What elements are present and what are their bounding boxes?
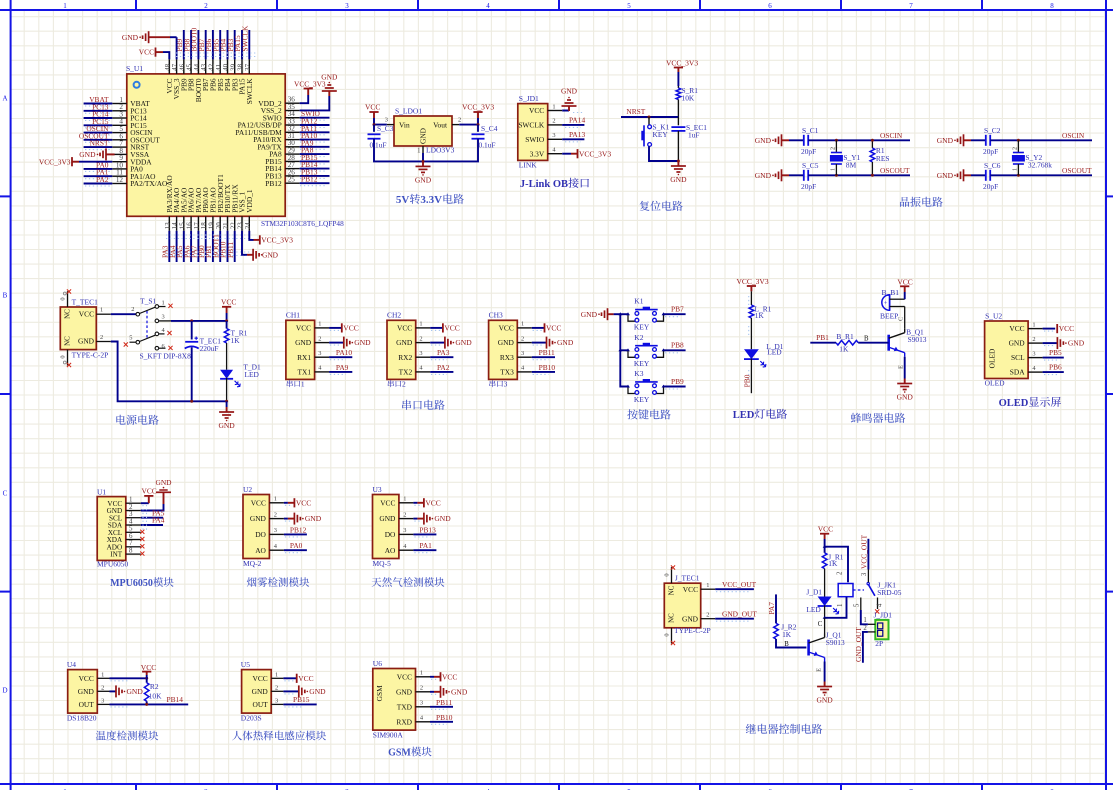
svg-text:1: 1: [1012, 168, 1018, 171]
svg-text:3: 3: [1032, 350, 1035, 357]
svg-text:PA2/TX/AO: PA2/TX/AO: [130, 179, 168, 188]
svg-text:GND: GND: [122, 33, 139, 42]
MCU pin 19 PB1/AO: [208, 187, 218, 231]
wire OSCOUT rail: [808, 174, 910, 177]
svg-text:OLED: OLED: [988, 348, 997, 368]
svg-text:C: C: [818, 621, 823, 628]
net label PA13 on JD1 pin 3: [562, 130, 585, 142]
MCU pin 41 PB5: [215, 59, 225, 91]
power port VCC power circuit: [221, 298, 236, 323]
svg-text:VDD_1: VDD_1: [245, 189, 254, 213]
MCU pin 46 PB9: [178, 59, 188, 91]
svg-text:2: 2: [706, 611, 709, 618]
caption reset circuit: [640, 201, 650, 211]
power port VCC_3V3 on MCU pin 9 VDDA: [39, 157, 112, 166]
power port VCC buzzer: [897, 278, 912, 300]
capacitor S_C2 20pF: [971, 126, 1001, 156]
svg-text:RX1: RX1: [297, 353, 311, 362]
net label PB0 on MCU pin 18: [197, 231, 206, 262]
svg-text:TYPE-C-2P: TYPE-C-2P: [72, 351, 109, 360]
svg-text:VCC: VCC: [1059, 324, 1074, 333]
net label PA2 on MCU pin 12: [84, 175, 113, 186]
ground symbol on MCU pin 35 VSS_2: [300, 73, 338, 111]
svg-text:S_C2: S_C2: [984, 126, 1001, 135]
net label SWCLK on MCU pin 37: [240, 25, 249, 59]
relay J_JK1 SRD-05 coil: [825, 571, 902, 618]
net label PB15 on U5 pin 3: [283, 695, 316, 707]
svg-text:PB12: PB12: [301, 175, 318, 184]
TEC1 top no-connect stub pin 0: [60, 289, 72, 307]
svg-text:PB5: PB5: [1049, 348, 1062, 357]
MCU pin 7 NRST: [112, 140, 149, 152]
net label PB1 and base resistor wire: [810, 333, 836, 343]
svg-text:2: 2: [131, 306, 134, 313]
MCU pin 47 VSS_3: [171, 59, 181, 99]
MCU pin 3 PC14: [112, 110, 147, 122]
net label VCC_OUT on J_TEC1 pin 1: [701, 580, 757, 592]
svg-text:1: 1: [275, 671, 278, 678]
svg-text:VCC: VCC: [139, 48, 154, 57]
svg-text:PA13: PA13: [569, 130, 585, 139]
svg-text:GND: GND: [1009, 339, 1026, 348]
module U4 DS18B20: [67, 660, 110, 723]
svg-text:GND: GND: [755, 171, 772, 180]
svg-text:A: A: [2, 95, 7, 103]
MCU pin 23 VSS_1: [237, 192, 247, 231]
svg-text:LED: LED: [245, 370, 260, 379]
svg-text:VCC_OUT: VCC_OUT: [859, 534, 868, 569]
svg-text:E: E: [816, 668, 823, 672]
svg-text:KEY: KEY: [634, 395, 650, 404]
svg-text:RX2: RX2: [398, 353, 412, 362]
MCU pin 27 PB14: [265, 161, 299, 173]
push button K3 KEY: [626, 369, 665, 404]
svg-text:3.3V: 3.3V: [530, 149, 545, 158]
svg-text:J_TEC1: J_TEC1: [675, 574, 700, 583]
svg-text:10K: 10K: [682, 94, 695, 103]
svg-text:1K: 1K: [828, 559, 838, 568]
MCU pin 37 SWCLK: [244, 59, 254, 104]
resistor S_R1 10K: [676, 86, 698, 103]
svg-text:2: 2: [1012, 147, 1018, 150]
svg-text:D203S: D203S: [241, 714, 262, 723]
net label PB9 on MCU pin 46: [175, 30, 184, 59]
svg-text:B_B1: B_B1: [882, 288, 900, 297]
MCU pin 5 OSCIN: [112, 125, 153, 137]
ground symbol on U6 pin 2: [430, 686, 468, 698]
net label PA14 on JD1 pin 2: [562, 116, 585, 128]
svg-text:1: 1: [420, 670, 423, 677]
capacitor S_C6 20pF: [971, 161, 1001, 191]
power port VCC on CH3 pin 1: [532, 323, 562, 332]
svg-text:VCC: VCC: [252, 674, 267, 683]
MCU pin 17 PA7/AO: [193, 187, 203, 231]
svg-text:GND: GND: [309, 687, 326, 696]
svg-text:2: 2: [830, 147, 836, 150]
net label BOOT0 on MCU pin 44: [190, 27, 199, 59]
svg-text:25: 25: [288, 176, 296, 184]
net label PA10 on MCU pin 31: [300, 131, 330, 142]
svg-text:K3: K3: [634, 369, 643, 378]
net label PB14 on U4 pin 3 OUT: [110, 695, 189, 707]
net label SWIO on MCU pin 34: [300, 109, 330, 120]
svg-text:KEY: KEY: [653, 130, 669, 139]
compile mask dots LED circuit: [748, 296, 750, 379]
svg-text:S_U1: S_U1: [126, 64, 143, 73]
power port VCC relay circuit: [818, 525, 833, 539]
caption power supply circuit: [116, 415, 125, 425]
svg-text:GND: GND: [670, 175, 687, 184]
svg-text:OSCOUT: OSCOUT: [1062, 166, 1092, 175]
svg-text:MPU6050: MPU6050: [110, 578, 153, 589]
svg-text:2: 2: [521, 335, 524, 342]
svg-text:LDO3V3: LDO3V3: [426, 146, 455, 155]
svg-text:GND: GND: [78, 687, 95, 696]
svg-text:VCC: VCC: [1009, 324, 1024, 333]
power port VCC on CH2 pin 1: [430, 323, 460, 332]
svg-text:1: 1: [830, 168, 836, 171]
svg-text:1uF: 1uF: [688, 130, 700, 139]
net label PA1 on MCU pin 11: [84, 168, 113, 179]
caption PIR sensor module: [232, 731, 242, 740]
svg-text:GND: GND: [262, 250, 279, 259]
svg-text:GND: GND: [79, 150, 96, 159]
svg-text:7: 7: [909, 2, 913, 10]
svg-text:GND: GND: [897, 393, 914, 402]
net label PA6 on MCU pin 16: [182, 231, 191, 262]
wire C3 to ground rail: [374, 139, 423, 162]
svg-text:2: 2: [402, 380, 406, 389]
net label PA3 on CH2 pin 3: [430, 348, 453, 359]
svg-text:1: 1: [417, 148, 420, 155]
svg-text:1: 1: [419, 321, 422, 328]
svg-text:INT: INT: [110, 551, 123, 559]
net label PB6 on OLED pin 4: [1043, 363, 1064, 375]
svg-text:VCC: VCC: [296, 324, 311, 333]
wire R1 to NRST node: [621, 103, 678, 119]
svg-text:PA0: PA0: [290, 541, 303, 550]
svg-text:3: 3: [275, 697, 278, 704]
MCU pin 36 VDD_2: [258, 96, 299, 108]
svg-text:VCC: VCC: [499, 324, 514, 333]
svg-text:1: 1: [837, 604, 844, 607]
svg-text:3.3V: 3.3V: [420, 194, 442, 206]
svg-text:2: 2: [420, 685, 423, 692]
svg-text:0: 0: [664, 573, 671, 576]
svg-text:CH1: CH1: [286, 311, 300, 320]
svg-text:GND: GND: [379, 514, 396, 523]
net label PB8 on MCU pin 45: [182, 30, 191, 59]
svg-text:RX3: RX3: [500, 353, 514, 362]
LED L_D1: [744, 342, 784, 367]
svg-text:KEY: KEY: [634, 323, 650, 332]
svg-text:PA9: PA9: [336, 363, 349, 372]
svg-text:2: 2: [318, 335, 321, 342]
net label OSCOUT on MCU pin 6: [79, 131, 112, 142]
svg-text:VCC: VCC: [142, 487, 157, 496]
power port VCC_3V3 on MCU pin 36 VDD_2: [294, 80, 326, 104]
net label PA9 on MCU pin 30: [300, 138, 330, 149]
svg-text:GND: GND: [581, 310, 598, 319]
MCU pin 9 VDDA: [112, 154, 152, 166]
svg-text:4: 4: [486, 2, 490, 10]
svg-text:PA7: PA7: [767, 602, 776, 615]
svg-text:GND_OUT: GND_OUT: [854, 627, 863, 662]
svg-text:NC: NC: [668, 613, 676, 623]
svg-text:GND: GND: [155, 478, 172, 487]
ground symbol on CH3 pin 2: [532, 337, 574, 349]
MCU pin 43 PB7: [200, 59, 210, 91]
svg-text:TX2: TX2: [399, 367, 413, 376]
net label BOOT1 on MCU pin 20: [211, 231, 220, 262]
svg-text:Vout: Vout: [433, 121, 448, 130]
MCU pin 13 PA3/RX/AO: [164, 175, 174, 231]
net label PA3 on MCU pin 13: [161, 231, 170, 262]
relay switch contacts: [853, 570, 884, 614]
MCU pin 24 VDD_1: [244, 189, 254, 231]
svg-text:SIM900A: SIM900A: [373, 731, 404, 740]
svg-text:S_LDO1: S_LDO1: [395, 107, 422, 116]
svg-text:J-Link OB: J-Link OB: [520, 179, 568, 190]
svg-text:VCC: VCC: [444, 324, 459, 333]
svg-text:U2: U2: [243, 485, 252, 494]
MCU pin 33 PA12/USB/DP: [238, 117, 300, 129]
svg-text:S_U2: S_U2: [985, 311, 1002, 320]
ground symbol power circuit: [218, 401, 235, 430]
capacitor S_C1 20pF: [789, 126, 819, 156]
svg-text:SCL: SCL: [1011, 353, 1025, 362]
svg-text:2: 2: [275, 684, 278, 691]
resistor L_R1 1K: [749, 291, 772, 349]
svg-text:PB14: PB14: [167, 695, 184, 704]
svg-text:BEEP: BEEP: [880, 312, 898, 321]
svg-text:220uF: 220uF: [200, 344, 219, 353]
net label PA5 on U1 pin 3: [141, 508, 165, 517]
module U2 MQ-2: [243, 485, 284, 568]
svg-text:PB15: PB15: [293, 695, 310, 704]
net label PA7 on MCU pin 17: [190, 231, 199, 262]
capacitor S_C3 0.1uF: [368, 124, 394, 150]
svg-text:8: 8: [129, 546, 133, 554]
MCU pin 21 PB10/TX: [222, 184, 232, 231]
svg-text:VCC: VCC: [546, 324, 561, 333]
MCU pin 6 OSCOUT: [112, 132, 160, 144]
svg-text:DO: DO: [255, 530, 266, 539]
svg-text:PB12: PB12: [290, 525, 307, 534]
net label PA1 on U3 pin 4: [413, 541, 436, 553]
connector J_TEC1 TYPE-C-2P: [664, 574, 710, 636]
net label PB13 on U3 pin 3: [413, 525, 436, 537]
ground symbol buzzer: [904, 379, 906, 384]
net label PA0 on U2 pin 4: [284, 541, 307, 553]
ground symbol on MCU pin 47 VSS_3: [122, 31, 177, 59]
wire LED to PB0: [750, 359, 752, 394]
svg-text:3: 3: [504, 380, 508, 389]
resistor J_R1 1K: [822, 553, 844, 569]
wire C4 to ground rail: [423, 139, 478, 162]
svg-text:GND: GND: [218, 421, 235, 430]
svg-text:VCC: VCC: [425, 498, 440, 507]
svg-text:TYPE-C-2P: TYPE-C-2P: [674, 626, 711, 635]
caption key circuit: [627, 409, 637, 419]
svg-text:PB0: PB0: [743, 374, 752, 387]
svg-text:U3: U3: [373, 485, 382, 494]
svg-text:32.768k: 32.768k: [1028, 161, 1052, 170]
svg-text:TX1: TX1: [298, 367, 312, 376]
svg-text:S9013: S9013: [826, 638, 845, 647]
ground symbol on MCU pin 8 VSSA: [79, 148, 114, 160]
wire base resistor to base: [858, 335, 889, 342]
MCU pin 16 PA6/AO: [186, 187, 196, 231]
MCU pin 48 VCC: [164, 59, 174, 93]
svg-text:+: +: [884, 300, 888, 307]
svg-text:1K: 1K: [755, 311, 765, 320]
wire EC1 to ground: [677, 160, 680, 163]
svg-text:2: 2: [458, 117, 461, 124]
svg-text:VCC: VCC: [818, 525, 833, 534]
svg-text:3: 3: [345, 2, 349, 10]
svg-text:OSCIN: OSCIN: [880, 131, 903, 140]
svg-text:RXD: RXD: [396, 717, 412, 726]
svg-text:TXD: TXD: [397, 702, 413, 711]
svg-text:KEY: KEY: [634, 359, 650, 368]
MCU pin 40 PB4: [222, 59, 232, 91]
svg-text:5: 5: [129, 334, 132, 341]
net label PB4 on MCU pin 40: [219, 30, 228, 59]
module U3 MQ-5: [373, 485, 414, 568]
svg-text:VCC_3V3: VCC_3V3: [39, 157, 71, 166]
svg-text:GND: GND: [498, 338, 515, 347]
svg-text:1: 1: [1032, 321, 1035, 328]
svg-text:0: 0: [60, 355, 67, 358]
power port VCC on U6 pin 1: [430, 672, 457, 681]
svg-text:0: 0: [60, 297, 67, 300]
svg-text:B: B: [864, 335, 869, 342]
svg-text:1: 1: [521, 321, 524, 328]
svg-text:PA2: PA2: [437, 363, 450, 372]
svg-text:2: 2: [274, 511, 277, 518]
ground symbol on U3 pin 2: [413, 513, 451, 525]
MCU pin 1 VBAT: [112, 96, 150, 108]
resistor T_R1 1K: [224, 321, 247, 352]
wire VCC to Vin and C3: [373, 118, 387, 132]
svg-text:5: 5: [627, 2, 631, 10]
net label PB7 on K1: [664, 305, 686, 317]
net label PC14 on MCU pin 3: [84, 110, 113, 121]
svg-text:T_TEC1: T_TEC1: [72, 297, 98, 306]
wire emitter to ground relay: [816, 662, 825, 682]
wire K1 to ground rail: [649, 146, 678, 161]
svg-text:37: 37: [244, 63, 252, 71]
svg-text:S_C4: S_C4: [481, 124, 498, 133]
MCU pin 15 PA5/AO: [178, 187, 188, 231]
push button S_K1 KEY: [641, 117, 669, 146]
svg-text:PB13: PB13: [419, 525, 436, 534]
wire TEC1 GND pin 2 to ground rail: [96, 334, 228, 403]
caption temperature detection module: [96, 731, 106, 741]
MCU pin 44 BOOT0: [193, 59, 203, 102]
svg-text:U5: U5: [241, 660, 250, 669]
net label PA8 on MCU pin 29: [300, 146, 330, 157]
svg-text:STM32F103C8T6_LQFP48: STM32F103C8T6_LQFP48: [261, 219, 344, 228]
svg-text:PB11: PB11: [436, 698, 452, 707]
svg-text:CH3: CH3: [489, 311, 503, 320]
svg-text:B: B: [3, 292, 8, 300]
wire LDO GND pin down: [422, 153, 425, 163]
svg-text:3: 3: [318, 350, 321, 357]
net label PA7 vertical: [767, 594, 776, 623]
ground symbol on U5 pin 2: [283, 685, 326, 697]
net label PB3 on MCU pin 39: [226, 30, 235, 59]
net label PB15 on MCU pin 28: [300, 153, 330, 164]
svg-text:OUT: OUT: [252, 700, 268, 709]
net label NRST on MCU pin 7: [84, 139, 113, 150]
no-connect X on U1 pin 7: [140, 544, 144, 548]
power port VCC on U3 pin 1: [413, 498, 440, 507]
svg-text:GND: GND: [755, 136, 772, 145]
svg-text:K1: K1: [634, 297, 643, 306]
ground symbol below LDO: [422, 161, 424, 166]
connector S_JD1 J-Link LINK header: [518, 94, 562, 170]
power port VCC_3V3 reset circuit: [666, 59, 698, 72]
svg-text:3: 3: [101, 697, 104, 704]
svg-text:LINK: LINK: [519, 161, 537, 170]
svg-text:OLED: OLED: [985, 379, 1006, 388]
caption serial port circuit: [402, 400, 411, 410]
svg-text:PB7: PB7: [671, 305, 684, 314]
svg-text:S_C5: S_C5: [802, 161, 819, 170]
svg-text:1: 1: [318, 321, 321, 328]
svg-text:VCC: VCC: [251, 498, 266, 507]
crystal S_Y2 32.768k: [1012, 140, 1052, 175]
svg-text:GSM: GSM: [388, 748, 411, 759]
svg-text:VCC: VCC: [79, 310, 94, 319]
MCU pin 45 PB8: [186, 59, 196, 91]
push button K1 KEY: [626, 297, 665, 332]
ground symbol on MCU pin 23 VSS_1: [242, 231, 279, 261]
transistor B_Q1 S9013: [889, 328, 927, 357]
svg-text:S9013: S9013: [908, 335, 927, 344]
svg-text:PB8: PB8: [671, 341, 684, 350]
svg-text:GND: GND: [78, 337, 95, 346]
svg-text:2: 2: [204, 2, 208, 10]
svg-text:GND: GND: [937, 171, 954, 180]
MCU pin 29 PA8: [269, 146, 299, 158]
svg-text:5: 5: [854, 603, 861, 607]
ground symbol at S_C5: [755, 169, 789, 181]
svg-text:1: 1: [863, 617, 866, 624]
svg-text:U1: U1: [97, 487, 106, 496]
svg-text:VCC_3V3: VCC_3V3: [261, 236, 293, 245]
power port VCC on MCU pin 48: [139, 48, 170, 60]
ground symbol on OLED pin 2: [1043, 337, 1085, 349]
net label PB9 on K3: [664, 377, 686, 389]
svg-text:PA2: PA2: [96, 175, 109, 184]
ground symbol on U2 pin 2: [284, 513, 322, 525]
ground symbol at S_C2: [937, 134, 971, 146]
net label PB10 on MCU pin 21: [219, 231, 228, 262]
resistor R2 10K pullup: [144, 678, 162, 704]
module U1 MPU6050: [97, 487, 141, 568]
svg-text:PA1: PA1: [419, 541, 432, 550]
svg-text:GND: GND: [250, 514, 267, 523]
power port VCC_3V3 at LDO output: [462, 103, 494, 119]
svg-text:MPU6050: MPU6050: [97, 559, 129, 568]
svg-text:2: 2: [403, 511, 406, 518]
svg-text:0.1uF: 0.1uF: [479, 141, 496, 150]
svg-text:VCC: VCC: [442, 672, 457, 681]
svg-text:1: 1: [301, 380, 305, 389]
